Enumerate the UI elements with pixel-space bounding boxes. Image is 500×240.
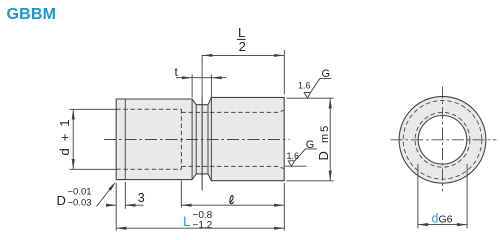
svg-text:1.6: 1.6 xyxy=(287,151,300,161)
bushing body (side view) xyxy=(116,97,284,180)
end view bore circle xyxy=(418,116,467,165)
dim ell dimension line xyxy=(181,204,284,206)
left section right face xyxy=(191,99,193,180)
hidden line counterbore step xyxy=(180,109,182,169)
dim Dm5 dimension line xyxy=(329,98,331,181)
groove right wall xyxy=(207,105,209,174)
dim L/2 right extension line xyxy=(283,50,285,95)
svg-text:G: G xyxy=(322,68,331,80)
groove left wall xyxy=(195,105,197,174)
dim t extension lines xyxy=(191,75,193,98)
svg-text:L: L xyxy=(183,214,191,229)
groove centreline / L-2 extension xyxy=(201,55,203,97)
end view dashed circle inner xyxy=(415,112,470,167)
dim 3 dimension line with outside arrows xyxy=(107,204,117,206)
hidden line d bore top with entry flare xyxy=(181,110,284,112)
dim L/2 dimension line xyxy=(202,54,284,56)
dim t dimension line with outside arrows xyxy=(176,77,226,79)
dim d+1 dimension line xyxy=(72,109,74,169)
hidden line d bore bottom with entry flare xyxy=(181,166,284,168)
surface finish symbol on OD xyxy=(304,92,310,98)
dim L right extension line xyxy=(283,183,285,231)
svg-text:G6: G6 xyxy=(439,213,453,225)
hidden line d+1 bore bottom xyxy=(116,168,181,170)
svg-text:1.6: 1.6 xyxy=(298,81,311,91)
dim dG6 extension lines xyxy=(417,164,419,229)
hidden line d+1 bore top xyxy=(116,108,181,110)
end view dashed circle outer xyxy=(403,101,482,180)
leader to press-fit OD corner xyxy=(97,184,115,207)
svg-text:L: L xyxy=(238,25,245,40)
svg-text:3: 3 xyxy=(138,191,145,205)
press-fit land edge (3mm) vertical line xyxy=(124,99,126,180)
surface finish symbol on bore leader xyxy=(285,165,307,167)
svg-text:D m5: D m5 xyxy=(316,124,331,161)
dim Dm5 extension lines xyxy=(287,97,334,99)
svg-text:t: t xyxy=(175,65,179,79)
svg-text:2: 2 xyxy=(239,39,246,54)
dim dG6 dimension line xyxy=(418,224,467,226)
svg-text:D: D xyxy=(57,193,66,208)
end view horizontal centreline xyxy=(391,139,497,141)
svg-text:G: G xyxy=(306,139,315,151)
dim d+1 extension lines xyxy=(70,108,117,110)
dim ell extension line xyxy=(180,181,182,208)
end view outer circle xyxy=(399,96,486,183)
svg-text:d + 1: d + 1 xyxy=(57,118,72,156)
dim ell label (script ell) xyxy=(230,196,234,204)
end view vertical centreline xyxy=(442,87,444,192)
dim L dimension line xyxy=(116,227,284,229)
svg-text:GBBM: GBBM xyxy=(7,6,57,23)
right section left face xyxy=(210,97,212,180)
svg-text:−1.2: −1.2 xyxy=(193,220,213,231)
svg-text:d: d xyxy=(432,211,439,225)
svg-text:−0.03: −0.03 xyxy=(68,198,92,209)
svg-text:−0.01: −0.01 xyxy=(68,187,92,198)
part centreline (side view) xyxy=(104,139,290,141)
dim 3 extension lines xyxy=(115,183,117,231)
